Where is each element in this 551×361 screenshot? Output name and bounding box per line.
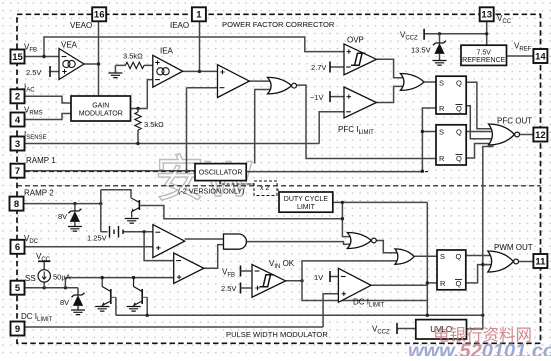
wire: PFC comparator output to NOR gate — [249, 80, 273, 82]
VFB bar input — [240, 266, 242, 277]
node: ISENSE / 3.5k junction — [136, 142, 139, 145]
pin 13 VCC — [480, 7, 494, 21]
transistor Q3 soft-start discharge — [141, 289, 143, 304]
svg-text:1.25V: 1.25V — [87, 234, 107, 243]
svg-text:−1V: −1V — [310, 93, 324, 102]
wire: PFC NOR output down to flip-flop 2 R input — [297, 85, 436, 158]
resistor R 3.5k (horizontal) — [125, 62, 144, 68]
flip-flop FF1 (S-R) — [436, 76, 466, 114]
svg-text:1: 1 — [196, 10, 202, 21]
comparator: PWM comparator — [153, 225, 185, 258]
svg-text:1V: 1V — [314, 273, 323, 282]
wire: ground to 3.5k resistor to IEA + input — [115, 64, 152, 66]
wire: PWM FF Qbar to output NOR — [466, 265, 493, 283]
svg-text:OSCILLATOR: OSCILLATOR — [199, 170, 243, 177]
svg-text:RAMP 1: RAMP 1 — [26, 156, 56, 165]
svg-text:MODULATOR: MODULATOR — [79, 110, 123, 117]
gate: PWM AND — [224, 234, 247, 249]
wire: 2.7V to OVP - input — [330, 66, 344, 68]
svg-text:RAMP 2: RAMP 2 — [24, 189, 54, 198]
wire: battery to PWM comparator - input — [123, 231, 152, 233]
gate: PWM OR — [395, 249, 414, 264]
wire: FF2 Q to PFC output NOR — [466, 131, 493, 133]
wire: RAMP 1 from pin 7 to oscillator — [24, 170, 195, 172]
pin 16 VEAO — [92, 7, 106, 21]
wire: VRMS from pin 4 to gain modulator — [24, 114, 71, 120]
node: RAMP2 junctions — [73, 202, 76, 205]
flip-flop FF3 PWM (S-R) — [437, 250, 466, 290]
wire: OVP output to OR gate — [376, 59, 406, 78]
VCCZ label for UVLO — [396, 323, 398, 334]
svg-text:LIMIT: LIMIT — [297, 204, 316, 211]
svg-text:2.5V: 2.5V — [26, 68, 41, 77]
wire: UVLO line up right side to both output gates — [483, 147, 494, 316]
pin 5 SS — [11, 281, 25, 295]
block: DUTY CYCLE LIMIT — [279, 192, 333, 212]
svg-text:S: S — [440, 252, 445, 261]
wire: OR gate output to PWM FF S input — [414, 255, 437, 257]
wire: current source into SS line — [43, 261, 45, 287]
svg-text:5: 5 — [15, 283, 21, 294]
2.5V reference bar for VEA — [49, 66, 51, 77]
zener diode 13.5V with ground — [439, 34, 441, 43]
comparator PFC ILIMIT — [344, 87, 376, 118]
wire: VDC from pin 6 to PWM comparator + input — [24, 246, 153, 248]
svg-text:3: 3 — [15, 139, 20, 150]
node: gain modulator output junction — [136, 107, 139, 110]
wire: IAC from pin 2 to gain modulator — [24, 96, 71, 103]
wire: FF R input — [427, 282, 437, 284]
wire: FF1 Qbar to PFC output NOR — [466, 106, 494, 139]
wire: reference output to pin 14 VREF — [507, 55, 534, 57]
svg-text:x 2: x 2 — [260, 185, 269, 192]
wire: PFC output NOR to pin 12 — [520, 134, 534, 136]
wire: DC ILIMIT comparator output to FF R line — [371, 284, 427, 286]
wire: IEA output to PFC comparator + input — [183, 70, 218, 72]
2.5V bar input — [240, 283, 242, 294]
svg-text:PULSE WIDTH MODULATOR: PULSE WIDTH MODULATOR — [226, 330, 328, 339]
node: RAMP1 junction — [185, 170, 188, 173]
svg-text:3.5kΩ: 3.5kΩ — [144, 120, 164, 129]
svg-text:11: 11 — [535, 256, 546, 267]
node: comparator input junction — [142, 230, 145, 233]
svg-text:8V: 8V — [60, 298, 69, 307]
wire: RAMP2 to discharge transistor collector — [101, 190, 131, 198]
svg-text:Q: Q — [456, 78, 462, 87]
wire: VIN OK up to OR gate input — [302, 261, 400, 281]
wire: PWM comparator output to AND gate — [185, 238, 224, 240]
gate: PFC output NOR driver — [489, 124, 515, 145]
svg-text:www.520101.com: www.520101.com — [408, 341, 551, 357]
node: clock junctions — [421, 130, 424, 133]
wire: FF1 Q to PFC output NOR — [466, 82, 494, 129]
wire: VCCZ to UVLO — [397, 328, 416, 330]
svg-text:9: 9 — [15, 324, 20, 335]
block: 7.5V REFERENCE — [461, 45, 507, 65]
svg-text:14: 14 — [535, 51, 546, 62]
wire: PWM NOR output to OR gate — [375, 241, 400, 253]
wire: VEA output — [84, 63, 99, 65]
wire: DC ILIMIT pin 9 line to comparator + input — [24, 294, 338, 327]
wire: UVLO box output — [467, 315, 483, 329]
wire: OR gate output to flip-flop 1 S input — [424, 81, 436, 83]
svg-text:GAIN: GAIN — [92, 103, 109, 110]
svg-text:S: S — [439, 78, 444, 87]
svg-text:16: 16 — [94, 10, 105, 21]
flip-flop FF2 (S-R) — [436, 125, 466, 165]
wire: VIN OK down to reset line — [302, 281, 427, 301]
svg-text:SS: SS — [25, 274, 36, 283]
ground for 3.5k resistor — [114, 65, 116, 73]
comparator VIN OK — [252, 265, 286, 298]
svg-text:4: 4 — [15, 115, 21, 126]
svg-text:6: 6 — [15, 242, 20, 253]
svg-text:Q: Q — [456, 128, 462, 137]
ground for Q1 emitter — [125, 219, 139, 224]
comparator DC ILIMIT — [338, 268, 371, 302]
svg-text:REFERENCE: REFERENCE — [462, 57, 506, 64]
frequency doubler x2 dashed box — [219, 181, 221, 184]
svg-text:3.5kΩ: 3.5kΩ — [123, 52, 143, 61]
gate: PWM NOR — [347, 233, 371, 249]
node: VEAO junction — [97, 62, 100, 65]
wire: -1V to PFC ILIMIT + input — [330, 96, 344, 98]
wire: duty cycle limit output line — [333, 201, 428, 203]
svg-text:VEA: VEA — [61, 41, 78, 50]
wire: VCC from pin 13 to 7.5V reference — [486, 21, 488, 45]
pin 7 RAMP1 — [11, 164, 25, 178]
wire: IEAO pin 1 down to IEA output — [199, 21, 201, 71]
pin 12 PFC OUT — [533, 128, 547, 142]
node: VFB junction — [42, 55, 45, 58]
op-amp IEA (current error amplifier) — [153, 55, 183, 87]
node: duty cycle junctions — [341, 201, 344, 204]
svg-text:Q: Q — [456, 104, 462, 113]
svg-text:13: 13 — [481, 10, 492, 21]
op-amp VEA (voltage error amplifier) — [59, 49, 84, 80]
svg-text:15: 15 — [12, 52, 23, 63]
gate: PFC NOR — [268, 77, 292, 94]
svg-text:OVP: OVP — [347, 36, 364, 45]
1V bar — [329, 271, 331, 282]
svg-text:7.5V: 7.5V — [477, 49, 492, 56]
wire: AND gate output to PWM NOR input — [246, 242, 352, 245]
wire: UVLO / reset rail — [116, 314, 483, 316]
PFC/PWM section divider dashed lines — [17, 171, 428, 173]
svg-text:50µA: 50µA — [53, 273, 71, 282]
block: OSCILLATOR — [195, 164, 246, 181]
wire: oscillator clock up to PFC NOR gate input — [255, 90, 274, 164]
wire: VIN OK output node — [286, 280, 302, 282]
svg-text:2.7V: 2.7V — [311, 63, 326, 72]
wire: duty cycle line down to PWM FF R input — [426, 202, 428, 315]
block: GAIN MODULATOR — [71, 96, 131, 121]
wire: 3.5k resistor lower connection to ISENSE — [137, 109, 139, 144]
wire: clock vertical to FF1 R and FF2 S — [422, 108, 436, 172]
wire: SS from pin 5 — [24, 287, 78, 289]
pin 9 DC ILIMIT — [11, 322, 25, 336]
transistor Q2 soft-start discharge — [110, 289, 112, 304]
zener diode 8V on RAMP2 — [74, 204, 76, 211]
pin 2 IAC — [11, 89, 25, 103]
wire: UVLO tap to PWM output NOR — [483, 264, 493, 266]
wire: VFB from pin 15 to VEA inverting input — [24, 56, 59, 58]
wire: PFC ILIMIT output to OR gate — [376, 86, 406, 102]
2.7V bar — [329, 62, 331, 73]
svg-text:S: S — [439, 128, 444, 137]
battery 1.25V offset — [110, 226, 124, 238]
wire: soft start rail to comparator 2 + input — [65, 278, 173, 288]
wire: comparator 2 output to AND gate — [204, 245, 224, 269]
transistor Q1 RAMP2 discharge — [138, 200, 140, 210]
node: IEAO junction — [198, 70, 201, 73]
svg-text:IEA: IEA — [160, 47, 174, 56]
svg-text:(-2 VERSION ONLY): (-2 VERSION ONLY) — [178, 187, 245, 196]
wire: PWM FF Q to output NOR — [466, 255, 493, 257]
VCCZ label top — [423, 29, 425, 40]
wire: ISENSE from pin 3 to PFC ILIMIT - input — [24, 112, 344, 144]
svg-text:PWM OUT: PWM OUT — [494, 243, 533, 252]
svg-text:DUTY CYCLE: DUTY CYCLE — [284, 196, 329, 203]
resistor R 3.5k (vertical) — [135, 112, 141, 130]
wire: PFC comparator - input down to RAMP 1 — [187, 88, 218, 172]
gate: PFC OR into flip-flop — [400, 74, 424, 91]
svg-text:POWER FACTOR CORRECTOR: POWER FACTOR CORRECTOR — [222, 20, 335, 29]
wire: VFB branch up and across to OVP + input — [44, 37, 344, 57]
pin 4 VRMS — [11, 113, 25, 127]
comparator: PFC duty comparator — [218, 65, 250, 98]
svg-text:R: R — [440, 279, 446, 288]
svg-text:7: 7 — [15, 166, 20, 177]
wire: VEAO pin 16 down through node to gain modulator — [98, 21, 100, 96]
zener diode 8V on SS — [77, 288, 79, 295]
-1V bar — [329, 91, 331, 102]
svg-text:Q: Q — [456, 154, 462, 163]
block: UVLO — [416, 320, 467, 339]
svg-text:Q: Q — [456, 252, 462, 261]
svg-text:R: R — [439, 104, 445, 113]
pin 15 VFB — [11, 50, 25, 64]
wire: RAMP2 down to 1.25V offset battery — [101, 190, 108, 232]
node: VCC junction — [485, 32, 488, 35]
pin 11 PWM OUT — [533, 254, 547, 268]
wire: soft start discharge bases line — [116, 297, 147, 315]
svg-text:8: 8 — [14, 199, 19, 210]
svg-text:Q: Q — [456, 279, 462, 288]
pin 6 VDC — [11, 240, 25, 254]
pin 14 VREF — [533, 49, 547, 63]
wire: 1V to DC ILIMIT - input — [330, 276, 338, 278]
svg-text:8V: 8V — [58, 212, 67, 221]
wire: discharge transistor base to clock line — [141, 206, 343, 219]
wire: PWM output NOR to pin 11 — [517, 261, 534, 263]
wire: VCCZ rail with 13.5V zener to VCC line — [424, 33, 487, 35]
comparator OVP — [344, 44, 376, 75]
pin 1 IEAO — [192, 7, 206, 21]
wire: gain modulator output to IEA - input — [131, 80, 153, 109]
wire: FF2 Qbar to PFC output NOR — [466, 144, 494, 159]
svg-text:2: 2 — [15, 92, 20, 103]
svg-text:PFC OUT: PFC OUT — [497, 117, 532, 126]
wire: oscillator clock rail to flip-flops — [246, 171, 422, 173]
pin 8 RAMP2 — [10, 197, 24, 211]
comparator: VEAO/SS comparator — [174, 253, 204, 284]
svg-text:13.5V: 13.5V — [411, 46, 431, 55]
pin 3 ISENSE — [11, 137, 25, 151]
svg-text:2.5V: 2.5V — [221, 284, 236, 293]
gate: PWM output NOR driver — [488, 251, 514, 272]
svg-text:R: R — [439, 154, 445, 163]
current source 50uA with VCC — [38, 260, 50, 262]
wire: duty cycle vertical to PWM NOR input — [342, 202, 352, 236]
wire: node down to second comparator - input — [144, 232, 174, 261]
wire: 2.5V reference to VEA + input — [50, 71, 59, 73]
svg-text:12: 12 — [535, 130, 546, 141]
wire: RAMP 2 from pin 8 — [24, 203, 101, 205]
svg-text:VEAO: VEAO — [70, 21, 92, 30]
svg-text:IEAO: IEAO — [170, 21, 189, 30]
